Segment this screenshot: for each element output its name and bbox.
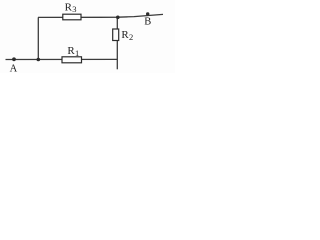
resistor R1: [62, 57, 82, 63]
svg-text:B: B: [144, 16, 151, 27]
wire: left vertical branch connecting top wire to bottom wire: [37, 17, 39, 59]
resistor R2: [113, 29, 119, 41]
svg-text:A: A: [10, 63, 18, 73]
svg-text:R2: R2: [121, 29, 133, 42]
terminal dot A: [12, 57, 16, 61]
junction: bottom wire with left branch: [37, 58, 41, 62]
wire: bottom horizontal from terminal A through R1: [6, 58, 118, 60]
svg-text:R1: R1: [67, 45, 79, 58]
wire: right vertical branch through R2: [116, 17, 118, 69]
svg-text:R3: R3: [65, 1, 77, 14]
terminal dot B: [146, 12, 149, 15]
junction: top wire with R2 branch: [116, 15, 120, 19]
wire: top horizontal (node from left branch through R3 to B): [38, 14, 163, 17]
resistor R3: [63, 14, 81, 20]
